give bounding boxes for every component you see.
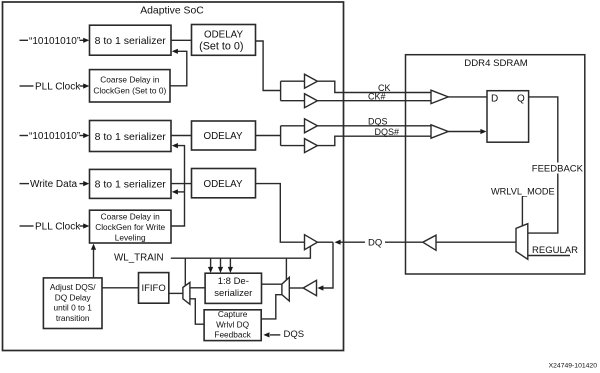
svg-text:ODELAY: ODELAY — [203, 179, 242, 190]
wire arrow into clockgen U8 — [80, 225, 85, 227]
node input PLL Clock row2 — [20, 85, 34, 87]
clockgen U8 (Coarse Delay for Write Leveling) — [90, 210, 172, 243]
mux M1 — [183, 282, 190, 304]
svg-text:Coarse Delay in: Coarse Delay in — [101, 212, 160, 222]
svg-text:FEEDBACK: FEEDBACK — [532, 164, 584, 175]
wire REGULAR stub — [528, 255, 570, 257]
clockgen U3 (Coarse Delay Set to 0) — [90, 70, 171, 102]
svg-text:WL_TRAIN: WL_TRAIN — [114, 253, 164, 264]
ODELAY U2 (Set to 0) — [192, 25, 256, 56]
wire T8 to flipflop clock with arrow — [448, 131, 481, 133]
wire T3 out to DQS pad — [317, 125, 431, 127]
svg-text:8 to 1 serializer: 8 to 1 serializer — [95, 179, 167, 191]
svg-text:8 to 1 serializer: 8 to 1 serializer — [95, 131, 167, 143]
buffer T3 (DQS) — [305, 119, 318, 133]
wire arrow into serializer U6 — [80, 183, 85, 185]
de-serializer U10 (1:8) — [205, 273, 261, 303]
svg-text:REGULAR: REGULAR — [532, 245, 578, 256]
svg-text:Leveling: Leveling — [115, 233, 146, 243]
wire M1 to de-serializer — [190, 287, 205, 289]
adjust U12 (DQS/DQ delay) — [43, 278, 102, 329]
svg-text:DQS#: DQS# — [374, 127, 399, 137]
svg-text:DQ: DQ — [368, 237, 382, 248]
svg-text:Coarse Delay in: Coarse Delay in — [100, 75, 159, 85]
svg-text:“10101010”: “10101010” — [29, 36, 80, 47]
wire arrow into clockgen U3 — [80, 85, 85, 87]
svg-text:Capture: Capture — [218, 309, 248, 319]
wire U4 to U5 — [171, 135, 192, 137]
wire DQS stub into capture — [270, 334, 280, 336]
wire Q feedback down to mux M3 — [528, 97, 558, 233]
svg-text:DQS: DQS — [284, 329, 305, 340]
svg-text:ClockGen (Set to 0): ClockGen (Set to 0) — [93, 85, 166, 95]
wire T5 out to DQ junction — [317, 241, 333, 243]
wire U1 to U2 — [171, 39, 192, 41]
svg-text:until 0 to 1: until 0 to 1 — [54, 303, 93, 313]
wire M3 output to DQ pad — [436, 241, 516, 243]
svg-text:Adjust DQS/: Adjust DQS/ — [50, 282, 96, 292]
capture U11 (Wrlvl DQ Feedback) — [204, 310, 261, 341]
wire M1 lower input from capture — [190, 299, 204, 324]
wire DQS buffer split — [280, 126, 282, 146]
wire T4 out to DQS# pad — [317, 136, 431, 145]
svg-text:Q: Q — [517, 94, 525, 105]
wire WL_TRAIN drop to mux M1 — [184, 258, 186, 286]
label FEEDBACK net — [532, 163, 584, 175]
buffer T7 (CK diff recv) — [431, 90, 448, 103]
wire feedback branch into U6 — [177, 191, 185, 193]
wire feedback U3 to U1 — [170, 51, 187, 86]
wire M2 to receiver T6 — [289, 287, 303, 289]
wire adjust to coarse clockgen U8 (arrow up) — [93, 249, 95, 278]
svg-text:DQ Delay: DQ Delay — [55, 292, 92, 302]
node input "10101010" row3 — [20, 135, 29, 137]
node input "10101010" row1 — [20, 39, 29, 41]
wire U7 output to DQ driver — [256, 184, 305, 243]
IFIFO U9 — [139, 273, 169, 304]
buffer T2 (CK#) — [305, 94, 318, 108]
svg-text:DQS: DQS — [368, 117, 388, 127]
svg-text:8 to 1 serializer: 8 to 1 serializer — [95, 35, 167, 47]
wire U5 output to DQS buffers — [256, 135, 281, 137]
buffer T8 (DQS diff recv) — [431, 125, 448, 138]
svg-text:ODELAY: ODELAY — [204, 30, 243, 41]
wire IFIFO to mux M1 — [169, 292, 183, 294]
serializer U4 (8 to 1, DQS path) — [90, 121, 172, 152]
wire CK buffer split — [280, 81, 282, 101]
wire DQ from DDR with arrow into junction — [340, 241, 423, 243]
svg-text:CK#: CK# — [368, 92, 386, 102]
DDR4 SDRAM boundary box — [406, 55, 585, 274]
wire DQ junction down to receiver — [323, 242, 333, 288]
svg-text:WRLVL_MODE: WRLVL_MODE — [491, 186, 555, 196]
buffer T1 (CK) — [305, 74, 318, 88]
wire U6 to U7 — [171, 183, 192, 185]
ODELAY U7 — [192, 169, 256, 198]
wire T7 to flipflop D — [448, 96, 487, 98]
wire capture to mux M2 — [261, 295, 282, 319]
svg-text:Adaptive SoC: Adaptive SoC — [140, 5, 204, 16]
ODELAY U5 — [192, 121, 256, 150]
wire adjust to IFIFO — [102, 287, 139, 289]
node input Write Data row4 — [20, 183, 30, 185]
wire WL_TRAIN drops into de-serializer — [210, 258, 212, 268]
receiver T6 (DQ in) — [303, 280, 316, 295]
svg-text:DDR4 SDRAM: DDR4 SDRAM — [464, 58, 527, 69]
wire feedback U8 to U4 and U6 — [171, 146, 185, 226]
svg-text:serializer: serializer — [214, 288, 252, 299]
svg-text:ClockGen for Write: ClockGen for Write — [95, 222, 165, 232]
label DQ net — [365, 236, 385, 249]
wire WL_TRAIN drop to mux M2 — [285, 258, 287, 280]
svg-text:(Set to 0): (Set to 0) — [199, 40, 243, 52]
flipflop U13 (D Q) — [487, 91, 529, 143]
wire T1 out to CK pad — [317, 81, 431, 92]
svg-text:Wrlvl DQ: Wrlvl DQ — [216, 319, 250, 329]
svg-text:Feedback: Feedback — [214, 329, 251, 339]
svg-text:PLL Clock: PLL Clock — [35, 222, 81, 233]
label WL_TRAIN wire — [171, 247, 311, 259]
wire T2 out to CK# pad — [317, 100, 431, 102]
buffer T9 (DQ driver in DDR) — [423, 235, 436, 250]
svg-text:X24749-101420: X24749-101420 — [549, 363, 598, 370]
serializer U6 (8 to 1, DQ path) — [90, 169, 172, 198]
svg-text:“10101010”: “10101010” — [29, 131, 80, 142]
serializer U1 (8 to 1, CK path) — [90, 25, 172, 55]
wire arrow into serializer U4 — [80, 135, 85, 137]
tristate driver T5 (DQ out) — [305, 235, 318, 250]
svg-text:IFIFO: IFIFO — [141, 283, 165, 294]
svg-text:ODELAY: ODELAY — [203, 131, 242, 142]
buffer T4 (DQS#) — [305, 139, 318, 153]
svg-text:PLL Clock: PLL Clock — [35, 82, 81, 93]
svg-text:transition: transition — [56, 313, 90, 323]
mux M2 — [282, 277, 289, 301]
node input PLL Clock row5 — [20, 225, 34, 227]
mux M3 — [516, 224, 528, 260]
svg-text:1:8 De-: 1:8 De- — [218, 276, 249, 287]
wire U2 output to CK buffers — [256, 41, 281, 91]
svg-text:Write Data: Write Data — [30, 179, 77, 190]
svg-text:D: D — [491, 94, 498, 105]
wire WRLVL_MODE select — [521, 197, 523, 227]
Adaptive SoC boundary box — [3, 2, 344, 351]
wire de-serializer to mux M2 — [262, 283, 282, 285]
wire arrow into serializer U1 — [80, 39, 85, 41]
